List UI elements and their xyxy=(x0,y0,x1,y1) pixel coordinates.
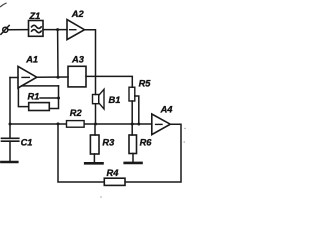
wire A1 input xyxy=(10,77,18,79)
wire R2 node down to bottom rail xyxy=(58,124,104,182)
svg-text:R6: R6 xyxy=(140,137,153,147)
amplifier A1 xyxy=(18,66,37,88)
resistor R4 xyxy=(104,178,125,185)
svg-text:Z1: Z1 xyxy=(29,11,41,21)
resistor R5 xyxy=(129,87,135,101)
page speck bottom xyxy=(100,196,101,197)
block A3 xyxy=(68,66,86,87)
amplifier A2 xyxy=(67,20,85,40)
wire A2 output to vertical xyxy=(85,30,96,95)
loudspeaker B1 xyxy=(93,89,105,109)
wire R5 wiper xyxy=(135,96,139,124)
node bus wiper xyxy=(137,123,140,126)
svg-text:A2: A2 xyxy=(71,9,85,19)
wire R6 top stub xyxy=(131,124,133,135)
wire R6 to ground xyxy=(132,154,134,162)
capacitor C1 xyxy=(2,138,19,141)
ground below R6 xyxy=(125,162,142,165)
svg-text:A4: A4 xyxy=(160,105,174,115)
node bus C1 xyxy=(9,123,12,126)
wire right vertical of R1 loop xyxy=(49,86,58,109)
wire A3 output across vertical to R5 xyxy=(86,76,132,87)
wire Z1 to A2 xyxy=(43,29,67,31)
svg-text:R5: R5 xyxy=(139,78,152,88)
svg-text:R1: R1 xyxy=(28,92,40,102)
wire C1 to ground xyxy=(9,141,11,161)
node Y junction xyxy=(57,76,60,79)
page speck right edge lower xyxy=(184,141,185,142)
wire R1 left lead xyxy=(18,88,28,107)
svg-text:B1: B1 xyxy=(109,95,121,105)
svg-text:R2: R2 xyxy=(70,108,83,118)
svg-text:C1: C1 xyxy=(21,137,33,147)
resistor R6 xyxy=(129,135,137,154)
wire A4 output feedback xyxy=(125,124,181,182)
node R1 junction xyxy=(57,97,60,100)
wire R1 right stub xyxy=(40,97,59,99)
wire left column down to C1 xyxy=(9,78,11,139)
filter Z1 xyxy=(29,21,44,37)
svg-text:A3: A3 xyxy=(71,55,85,65)
svg-text:A1: A1 xyxy=(25,55,38,65)
wire R5 bottom to bus xyxy=(131,101,133,124)
wire B1 bottom to bus xyxy=(95,104,97,124)
node top junction xyxy=(56,28,59,31)
ground below R3 xyxy=(85,162,102,165)
wire R3 top stub xyxy=(94,124,96,135)
wire bus horizontal xyxy=(10,123,152,125)
ground below C1 xyxy=(1,161,17,164)
node bus R5-R6 xyxy=(131,123,134,126)
wire A1 output to node Y xyxy=(37,76,68,78)
node bus R2 left xyxy=(57,122,60,125)
amplifier A4 xyxy=(152,114,171,135)
resistor R3 xyxy=(90,135,99,154)
resistor R2 xyxy=(67,121,85,128)
svg-text:R3: R3 xyxy=(102,137,115,147)
page speck top-left xyxy=(1,3,7,6)
input terminal X1 xyxy=(1,25,9,34)
wire feedback upper (from A1 slant to right vertical) xyxy=(22,85,59,87)
page speck right edge xyxy=(184,128,185,129)
wire vertical top junction to node Y xyxy=(57,30,59,78)
svg-text:R4: R4 xyxy=(107,168,120,178)
resistor R1 xyxy=(29,103,50,111)
wire R3 to ground xyxy=(93,154,95,162)
node bus B1 xyxy=(94,123,97,126)
wire input to Z1 xyxy=(8,29,29,31)
